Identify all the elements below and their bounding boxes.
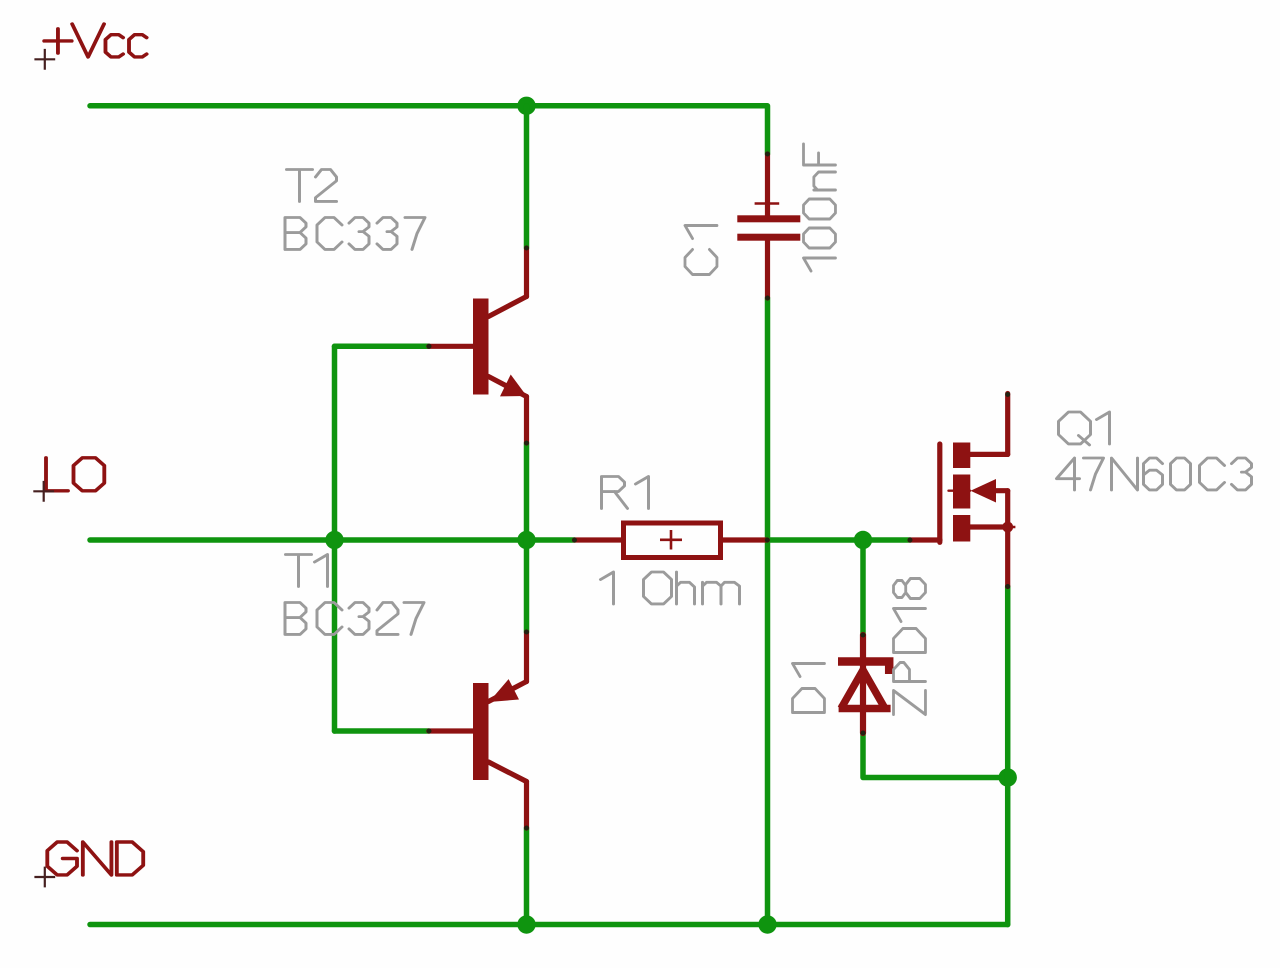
transistor T1 (PNP BC327)	[427, 630, 530, 831]
junction LO/emitters	[517, 531, 535, 549]
wire C1 bottom to GND rail	[765, 298, 771, 925]
junction C1/GND rail	[758, 915, 776, 933]
wire Q1 source to GND rail	[1005, 587, 1011, 925]
name label T1	[286, 555, 328, 587]
wire T1 base	[335, 728, 429, 734]
wire T2 collector net	[524, 106, 530, 248]
net label GND	[47, 842, 143, 875]
name label D1 (rotated)	[793, 664, 825, 713]
wire D1 bottom to source net	[863, 733, 1008, 778]
label origin cross (LO)	[33, 481, 54, 502]
value label ZPD18 (rotated)	[894, 579, 926, 715]
wire R1 to Q1 gate	[768, 537, 911, 543]
value label 1 Ohm	[601, 572, 740, 604]
junction T1 collector/GND rail	[517, 915, 535, 933]
mosfet Q1 (N-channel 47N60C3)	[908, 392, 1016, 589]
junction gate/D1	[854, 531, 872, 549]
zener diode D1	[838, 633, 891, 736]
name label T2	[287, 170, 337, 202]
value label BC327	[285, 603, 424, 635]
name label R1	[602, 477, 649, 509]
label origin cross (GND)	[34, 867, 55, 888]
wire LO input	[90, 537, 575, 543]
label origin cross (+Vcc)	[34, 49, 55, 70]
junction D1/source net	[999, 768, 1017, 786]
name label Q1	[1059, 412, 1110, 445]
value label BC337	[285, 218, 425, 250]
wire GND bottom rail	[90, 922, 1008, 928]
wire Vcc top rail	[90, 106, 768, 154]
wire D1 top	[860, 540, 866, 635]
capacitor C1 (polarized)	[737, 152, 800, 301]
net label +Vcc	[44, 24, 146, 57]
transistor T2 (NPN BC337)	[427, 246, 530, 446]
value label 47N60C3	[1057, 458, 1252, 490]
value label 100nF (rotated)	[804, 144, 836, 271]
wire T2 base	[335, 344, 429, 350]
wire T1 collector to GND rail	[524, 828, 530, 925]
name label C1 (rotated)	[685, 226, 717, 275]
wire base net vertical T2-T1	[332, 346, 338, 731]
wire T2 emitter to T1 emitter	[524, 443, 530, 632]
junction LO/base net	[325, 531, 343, 549]
resistor R1	[572, 523, 770, 558]
net label LO	[46, 458, 104, 491]
junction Vcc/T2 collector	[517, 97, 535, 115]
